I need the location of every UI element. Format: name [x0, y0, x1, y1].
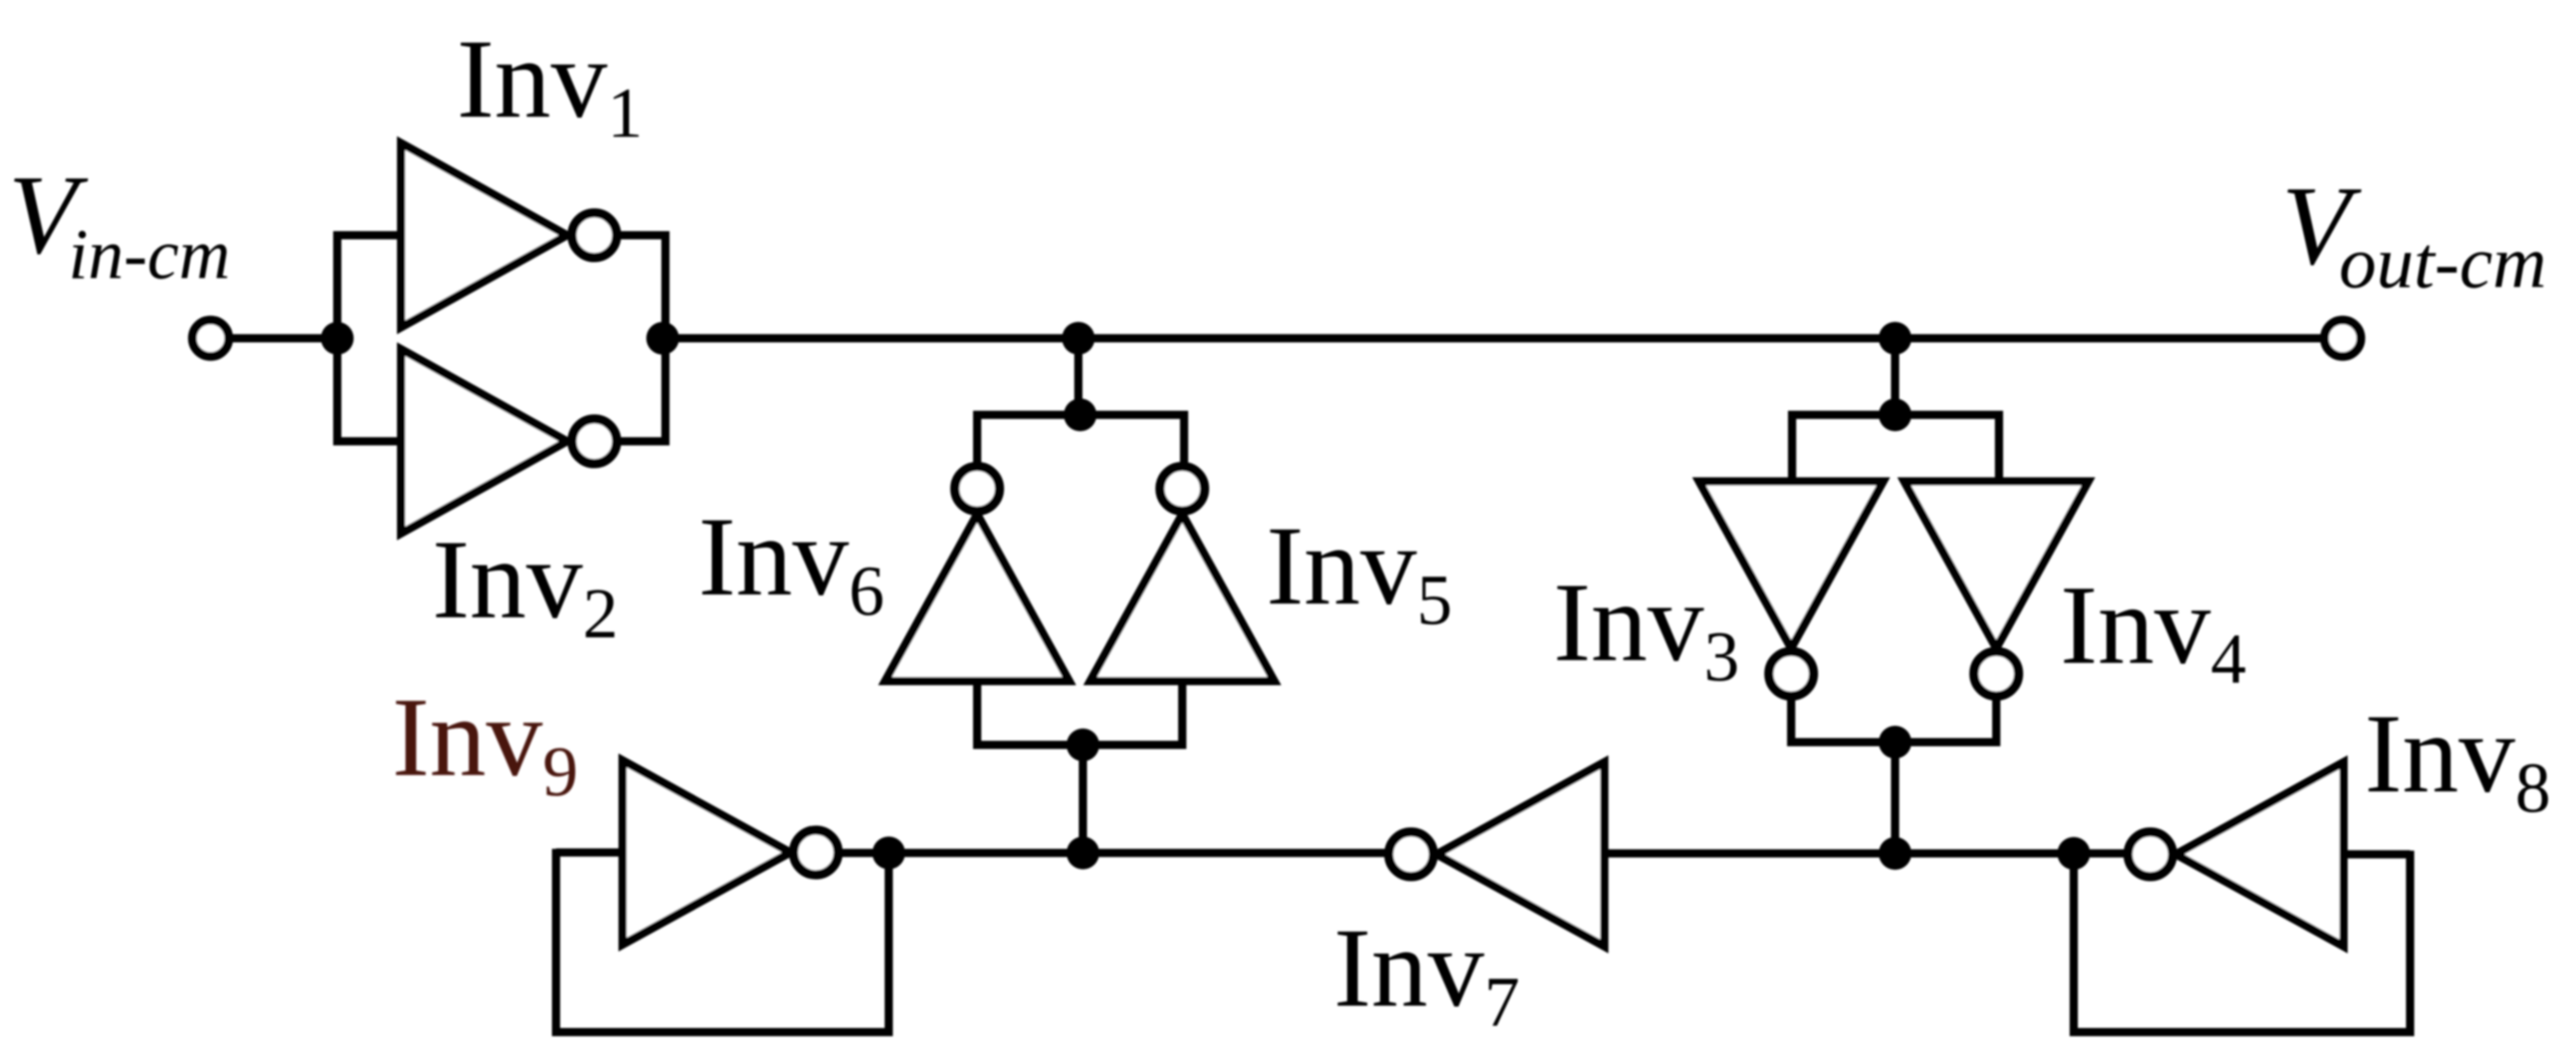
svg-text:out-cm: out-cm [2339, 221, 2547, 304]
svg-text:in-cm: in-cm [68, 214, 231, 294]
